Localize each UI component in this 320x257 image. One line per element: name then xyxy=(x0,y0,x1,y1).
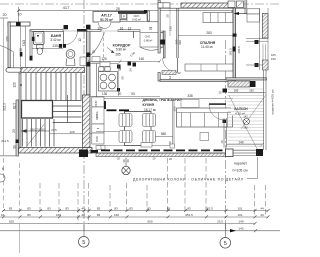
svg-text:16: 16 xyxy=(220,140,224,144)
svg-text:150: 150 xyxy=(271,57,276,61)
duct boxes right xyxy=(247,9,260,14)
svg-text:102: 102 xyxy=(97,26,103,30)
svg-text:h=105 см: h=105 см xyxy=(233,169,249,173)
svg-text:•••: ••• xyxy=(97,128,100,131)
stair lower treads xyxy=(23,119,55,147)
divider wall bedroom/living xyxy=(160,80,234,82)
svg-text:83: 83 xyxy=(97,207,101,211)
sofa xyxy=(177,108,233,127)
bubble 5 stem xyxy=(83,224,85,237)
slope diagonals xyxy=(229,96,258,151)
svg-text:КУХНЯ: КУХНЯ xyxy=(143,103,155,107)
svg-text:60/60: 60/60 xyxy=(97,135,99,141)
bedroom east wall xyxy=(233,8,236,82)
svg-text:30: 30 xyxy=(19,48,23,52)
grid axis horizontal dash-dot xyxy=(0,3,280,5)
dining table xyxy=(125,112,152,146)
svg-text:83: 83 xyxy=(27,213,31,217)
labels line B xyxy=(1,213,264,217)
bedroom door leaf xyxy=(177,58,179,73)
closet east wall xyxy=(163,31,165,58)
coffee table square xyxy=(181,100,199,108)
svg-text:120: 120 xyxy=(13,82,17,88)
svg-text:16X17.5/28.5: 16X17.5/28.5 xyxy=(30,127,46,131)
window right edge lines xyxy=(258,8,260,70)
svg-text:Р: Р xyxy=(123,15,125,19)
stair treads upper flight xyxy=(26,73,81,101)
dining separator line xyxy=(96,131,125,133)
svg-text:182.5: 182.5 xyxy=(205,207,213,211)
black block on east wall xyxy=(233,34,237,37)
corridor south wall left part xyxy=(87,30,101,32)
hatch cabinet by door xyxy=(162,71,176,75)
heavy dashed boundary vertical xyxy=(104,101,106,109)
svg-text:83: 83 xyxy=(114,207,118,211)
window sill lines xyxy=(246,38,268,40)
stair top hatch band xyxy=(21,68,85,73)
bathroom/corridor wall vertical xyxy=(87,25,91,95)
east window wall living xyxy=(223,118,225,148)
svg-text:83: 83 xyxy=(65,207,69,211)
column at axis 3 white xyxy=(226,149,234,157)
svg-text:12: 12 xyxy=(78,38,82,42)
balcony bottom lines xyxy=(233,150,256,152)
kitchen sink bowls xyxy=(99,67,104,71)
black block bathroom left wall bottom xyxy=(30,56,33,61)
svg-text:322.5: 322.5 xyxy=(3,103,7,111)
corridor top wall xyxy=(120,19,147,21)
kitchen lower units xyxy=(92,97,104,107)
bedroom door arc xyxy=(163,58,178,73)
svg-text:351.5: 351.5 xyxy=(185,213,193,217)
stair direction diagonal xyxy=(26,125,44,148)
svg-text:136: 136 xyxy=(102,92,108,96)
entry door arc corridor xyxy=(89,33,105,57)
shaft inner wall xyxy=(176,8,178,58)
svg-text:16: 16 xyxy=(120,26,124,30)
svg-text:83: 83 xyxy=(187,207,191,211)
end tick line C xyxy=(254,222,257,225)
svg-text:СКЛ.: СКЛ. xyxy=(145,35,151,39)
bathroom door opening line xyxy=(63,30,77,32)
wardrobe bedroom xyxy=(203,13,233,23)
svg-text:25: 25 xyxy=(218,91,222,95)
svg-text:30: 30 xyxy=(126,159,130,163)
parapet leader xyxy=(257,157,259,179)
drain xyxy=(244,119,250,125)
svg-text:166: 166 xyxy=(114,213,119,217)
sink bowl xyxy=(66,50,75,59)
svg-text:101: 101 xyxy=(237,207,242,211)
balcony hatch band xyxy=(228,81,250,87)
wall black blocks mid xyxy=(86,53,90,58)
black block balcony xyxy=(250,81,256,87)
svg-text:83: 83 xyxy=(129,207,133,211)
svg-text:ДНЕВНА, ТРАПЕЗАРИЯ: ДНЕВНА, ТРАПЕЗАРИЯ xyxy=(143,98,183,102)
arrow on line D xyxy=(230,229,236,232)
svg-text:143: 143 xyxy=(243,115,248,119)
svg-text:300: 300 xyxy=(173,106,177,111)
column symbol circle xyxy=(125,158,127,167)
black block window bottom xyxy=(255,63,259,67)
svg-text:5: 5 xyxy=(224,241,227,247)
closet folding door xyxy=(140,47,163,50)
kitchen upper cabinet xyxy=(92,57,100,63)
svg-text:60/60: 60/60 xyxy=(96,100,98,106)
wc shelf box xyxy=(80,57,86,66)
stool xyxy=(200,133,209,141)
svg-text:93: 93 xyxy=(131,92,135,96)
svg-text:44: 44 xyxy=(81,207,85,211)
svg-text:МИВКА: МИВКА xyxy=(96,111,99,119)
node dot xyxy=(20,84,22,86)
svg-text:260: 260 xyxy=(243,126,248,130)
landing door arc xyxy=(0,46,13,52)
heavy dashed boundary horizontal xyxy=(107,109,117,111)
svg-text:101: 101 xyxy=(237,213,242,217)
entry box AP.17 xyxy=(93,12,120,23)
bubble 3 stem xyxy=(224,224,226,238)
svg-text:160: 160 xyxy=(139,57,145,61)
kitchen counter edge xyxy=(96,64,98,99)
sink pedestal xyxy=(66,59,75,66)
entry door semicircle xyxy=(98,22,111,29)
svg-text:ДЕКОРАТИВНИ КОЛОНИ - ОБЛИЧА: ДЕКОРАТИВНИ КОЛОНИ - ОБЛИЧАНЕ ПО ДЕТАЙЛ xyxy=(133,178,244,182)
stair arrow and spec xyxy=(22,130,51,132)
svg-text:338: 338 xyxy=(187,94,193,98)
svg-text:83: 83 xyxy=(47,207,51,211)
svg-text:18.17 м²: 18.17 м² xyxy=(144,108,156,112)
bedroom west wall xyxy=(158,0,160,53)
grid bubble 3 xyxy=(220,238,231,249)
svg-text:25: 25 xyxy=(92,49,96,53)
kitchen west hatch wall xyxy=(83,95,91,148)
svg-text:11.40 м²: 11.40 м² xyxy=(201,45,213,49)
door jamb blocks xyxy=(223,89,228,93)
black block window top xyxy=(255,40,259,44)
black cap of wall xyxy=(86,25,91,29)
svg-text:25: 25 xyxy=(166,14,170,18)
svg-text:0.92 м²: 0.92 м² xyxy=(132,18,141,22)
svg-text:211.5: 211.5 xyxy=(1,139,9,143)
dimension line B xyxy=(0,216,268,218)
balcony floor boards xyxy=(228,89,264,153)
pillar line xyxy=(172,99,174,148)
svg-text:145: 145 xyxy=(238,226,243,230)
counter black blocks xyxy=(117,65,121,69)
svg-text:83: 83 xyxy=(167,207,171,211)
labels line C xyxy=(9,219,244,223)
svg-text:140: 140 xyxy=(238,141,244,145)
leader arrow right xyxy=(237,13,253,15)
balcony door leaf xyxy=(209,103,226,105)
dim line 125 160 xyxy=(88,61,160,63)
svg-text:170: 170 xyxy=(6,36,10,42)
svg-text:83: 83 xyxy=(147,207,151,211)
svg-text:парапет: парапет xyxy=(234,162,247,166)
left grid bubble cut xyxy=(0,174,5,182)
bottom band upper line xyxy=(96,145,171,147)
closet SKL 0.86 walls xyxy=(133,32,135,39)
svg-text:44: 44 xyxy=(81,213,85,217)
party wall hatch top xyxy=(181,3,233,8)
svg-text:51.70 м²: 51.70 м² xyxy=(100,18,114,22)
svg-text:5: 5 xyxy=(82,240,85,246)
chair bottom-right xyxy=(143,131,156,143)
svg-text:165.5: 165.5 xyxy=(237,46,241,54)
kitchen shutter box xyxy=(100,62,110,67)
svg-text:285: 285 xyxy=(115,53,121,57)
svg-text:16: 16 xyxy=(1,213,5,217)
door hinge block xyxy=(64,25,69,29)
svg-text:20: 20 xyxy=(118,92,122,96)
balcony east rail xyxy=(263,70,265,150)
top-right small boxes xyxy=(228,1,235,8)
gas capsule xyxy=(6,68,21,72)
bathroom door arc xyxy=(64,31,78,45)
balcony door arc xyxy=(209,105,225,121)
stair left wall xyxy=(19,73,21,148)
stove frame xyxy=(99,72,118,92)
terrace black block xyxy=(91,150,99,153)
stairwell void xyxy=(22,101,53,119)
svg-text:580: 580 xyxy=(161,132,167,136)
window glazing lines xyxy=(262,44,264,63)
wall black block top-left xyxy=(16,22,21,26)
stair mid treads horizontal xyxy=(53,95,82,123)
terrace hatch band xyxy=(96,153,226,156)
top boxes left of hatch xyxy=(158,3,170,8)
svg-text:23: 23 xyxy=(12,129,16,133)
chair top-right xyxy=(143,114,156,127)
bedroom west wall lower xyxy=(158,73,160,82)
svg-text:23.5: 23.5 xyxy=(51,128,57,132)
dimension line D full xyxy=(0,230,280,232)
svg-text:АП.17: АП.17 xyxy=(101,14,112,18)
tick marks line B xyxy=(2,215,270,218)
svg-text:12: 12 xyxy=(128,26,132,30)
svg-text:12: 12 xyxy=(168,76,172,80)
svg-text:183.5: 183.5 xyxy=(229,48,233,56)
svg-text:ГАЗ: ГАЗ xyxy=(22,40,26,46)
closet box xyxy=(140,33,163,48)
right wall hatch lower xyxy=(262,60,268,70)
dim row 120 25 xyxy=(50,133,97,135)
wall left exterior vertical xyxy=(8,22,10,68)
svg-text:СКЛ.: СКЛ. xyxy=(133,14,139,18)
dresser bedroom xyxy=(185,64,233,71)
svg-text:83: 83 xyxy=(27,207,31,211)
wall stub top right xyxy=(244,0,246,14)
svg-text:190: 190 xyxy=(169,26,173,31)
opening line xyxy=(101,30,118,32)
svg-text:260: 260 xyxy=(175,39,179,44)
burners xyxy=(100,74,107,81)
svg-text:10: 10 xyxy=(18,13,22,17)
chair top-left xyxy=(119,114,132,127)
shower tray xyxy=(34,32,45,45)
living top boundary line xyxy=(96,98,233,100)
svg-text:12: 12 xyxy=(160,30,164,34)
balcony outer column black xyxy=(256,149,263,156)
black block closet wall xyxy=(161,40,166,45)
stair bottom hatch band xyxy=(19,148,92,154)
svg-text:35: 35 xyxy=(149,26,153,30)
shaft dark bar xyxy=(118,11,146,14)
left dim line vertical xyxy=(3,18,5,156)
svg-text:25: 25 xyxy=(116,7,120,11)
small boxes on band xyxy=(96,146,105,150)
grid bubble 5 xyxy=(79,237,90,248)
dashed drop lines xyxy=(40,158,266,224)
bathroom top wall xyxy=(30,30,63,32)
svg-text:12: 12 xyxy=(177,71,181,75)
grid axis vertical 5 xyxy=(83,0,85,231)
dimension line C xyxy=(0,223,255,225)
tick marks line A xyxy=(2,209,270,212)
wall right of entry opening xyxy=(118,30,140,32)
gas meter block xyxy=(20,52,23,57)
svg-text:120: 120 xyxy=(69,130,74,134)
svg-text:625: 625 xyxy=(9,219,14,223)
chair bottom-left xyxy=(119,131,132,143)
svg-text:390: 390 xyxy=(178,40,182,45)
WC toilet xyxy=(37,45,44,49)
svg-text:20: 20 xyxy=(3,13,7,17)
dimension line A xyxy=(3,210,268,212)
wall top-left horizontal xyxy=(8,22,30,26)
svg-text:125: 125 xyxy=(101,57,107,61)
balcony north wall xyxy=(226,78,267,80)
heavy dashed terrace line xyxy=(101,149,223,151)
grid axis vertical 3 xyxy=(225,40,227,231)
sink taps xyxy=(59,44,62,48)
svg-text:600: 600 xyxy=(147,219,152,223)
box P xyxy=(122,14,127,19)
right exterior wall hatch upper xyxy=(262,14,268,39)
left axis dashed xyxy=(3,158,5,211)
top dimension line 417 xyxy=(19,10,234,12)
column at axis 5 xyxy=(79,150,88,158)
section line left xyxy=(19,163,21,211)
svg-text:83: 83 xyxy=(97,213,101,217)
svg-text:417: 417 xyxy=(63,5,70,10)
svg-text:44: 44 xyxy=(260,213,264,217)
svg-text:парапет h=105 см: парапет h=105 см xyxy=(271,90,275,115)
svg-text:83: 83 xyxy=(9,207,13,211)
svg-text:60: 60 xyxy=(121,76,125,80)
gas riser pipes xyxy=(20,22,22,68)
svg-text:24: 24 xyxy=(129,68,133,72)
svg-text:5.86 м²: 5.86 м² xyxy=(116,47,126,51)
terrace thin line xyxy=(92,152,226,154)
svg-text:140: 140 xyxy=(238,219,243,223)
bathroom left wall xyxy=(30,31,32,56)
svg-text:166: 166 xyxy=(56,213,61,217)
svg-text:0.86 м²: 0.86 м² xyxy=(144,39,153,43)
black block stair bottom xyxy=(16,140,19,144)
labels line A xyxy=(9,207,264,211)
wall segment dark right of door xyxy=(77,29,87,32)
svg-text:283: 283 xyxy=(206,31,212,35)
svg-text:3.42 м²: 3.42 м² xyxy=(50,38,60,42)
landing line xyxy=(0,155,19,157)
svg-text:44: 44 xyxy=(260,207,264,211)
svg-text:23.5: 23.5 xyxy=(217,219,223,223)
stair bottom wall gray xyxy=(16,100,19,156)
bathroom door leaf xyxy=(63,31,65,46)
bedroom north wall line xyxy=(159,7,246,9)
closet SKL 0.92 xyxy=(127,14,147,21)
arrow to closet xyxy=(107,48,113,53)
